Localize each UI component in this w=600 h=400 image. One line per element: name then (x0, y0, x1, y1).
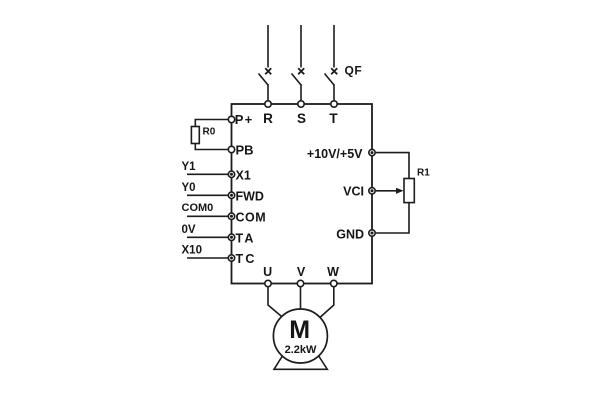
svg-text:X1: X1 (236, 168, 251, 182)
label VCI (343, 185, 364, 199)
terminal VCI (369, 188, 375, 194)
wire phase L1 input (267, 25, 269, 68)
terminal U (265, 280, 271, 286)
label U (263, 265, 272, 279)
wire phase L3 input (333, 25, 335, 68)
svg-text:X10: X10 (182, 245, 202, 257)
wire pole 2 to terminal S (300, 84, 302, 100)
breaker QF pole 3 blade (325, 74, 334, 85)
wire phase L2 input (300, 25, 302, 68)
wire V to motor (300, 287, 302, 310)
label M motor (289, 316, 310, 344)
breaker QF pole 1 contact X (265, 68, 271, 74)
svg-text:M: M (289, 316, 310, 344)
terminal PB (228, 146, 234, 152)
wire stub X10 to TC (187, 257, 228, 259)
terminal TA (228, 234, 234, 240)
label FWD (236, 189, 264, 203)
svg-text:T: T (329, 111, 338, 126)
svg-text:COM0: COM0 (182, 202, 214, 214)
svg-text:VCI: VCI (343, 185, 364, 199)
wiper arrow of R1 (396, 188, 404, 194)
label V (297, 265, 306, 279)
svg-text:TA: TA (236, 231, 256, 245)
label COM0 (182, 202, 214, 214)
motor mounting base (274, 351, 327, 369)
svg-text:P+: P+ (235, 112, 254, 127)
label 0V (182, 224, 196, 236)
label X10 (182, 245, 202, 257)
label S (297, 111, 306, 126)
terminal V (297, 280, 303, 286)
wire stub Y1 to X1 (187, 173, 228, 175)
wire stub COM0 to COM (187, 215, 228, 217)
terminal T (331, 101, 337, 107)
label R0 (203, 127, 216, 138)
label 2.2kW (285, 344, 317, 356)
label COM (236, 210, 267, 224)
svg-text:FWD: FWD (236, 189, 264, 203)
wire stub 0V to TA (187, 236, 228, 238)
label QF (345, 64, 363, 78)
terminal FWD (228, 192, 234, 198)
label P+ (235, 112, 254, 127)
svg-text:R0: R0 (203, 127, 216, 138)
breaker QF pole 2 blade (292, 74, 301, 85)
svg-text:V: V (297, 265, 306, 279)
wire VCI to wiper (376, 190, 398, 192)
label R1 (417, 168, 430, 179)
label GND (336, 228, 364, 242)
svg-text:GND: GND (336, 228, 364, 242)
label PB (236, 143, 254, 158)
svg-text:QF: QF (345, 64, 363, 78)
terminal GND (369, 230, 375, 236)
terminal COM (228, 213, 234, 219)
wire W to motor (316, 287, 334, 321)
label +10V/+5V (307, 147, 363, 161)
terminal +10V/+5V (369, 149, 375, 155)
svg-text:PB: PB (236, 143, 254, 158)
label Y0 (182, 182, 196, 194)
terminal TC (228, 255, 234, 261)
svg-text:Y0: Y0 (182, 182, 196, 194)
wire P+ to resistor R0 top (195, 120, 228, 127)
wire pole 3 to terminal T (333, 84, 335, 100)
terminal P+ (228, 116, 234, 122)
terminal X1 (228, 171, 234, 177)
svg-text:2.2kW: 2.2kW (285, 344, 317, 356)
breaker QF pole 2 contact X (298, 68, 304, 74)
svg-text:TC: TC (236, 252, 257, 266)
label TA (236, 231, 256, 245)
terminal S (298, 101, 304, 107)
wire +10V/+5V to potentiometer R1 top (376, 153, 409, 179)
resistor R0 (191, 127, 199, 144)
terminal R (265, 101, 271, 107)
wire resistor R0 bottom to PB (195, 144, 228, 150)
wire U to motor (268, 287, 287, 321)
potentiometer R1 body (404, 179, 414, 203)
terminal W (331, 280, 337, 286)
wire potentiometer R1 bottom to GND (376, 203, 409, 233)
label X1 (236, 168, 251, 182)
svg-text:S: S (297, 111, 306, 126)
breaker QF pole 1 blade (259, 74, 268, 85)
wire pole 1 to terminal R (267, 84, 269, 100)
svg-text:+10V/+5V: +10V/+5V (307, 147, 363, 161)
label Y1 (182, 161, 197, 173)
label T (329, 111, 338, 126)
svg-text:Y1: Y1 (182, 161, 197, 173)
label R (263, 111, 273, 126)
svg-text:W: W (327, 265, 339, 279)
motor M body (273, 309, 327, 363)
inverter box U1 (232, 104, 373, 284)
breaker QF pole 3 contact X (331, 68, 337, 74)
wire stub Y0 to FWD (187, 194, 228, 196)
label TC (236, 252, 257, 266)
svg-text:COM: COM (236, 210, 267, 224)
svg-text:R1: R1 (417, 168, 430, 179)
svg-text:0V: 0V (182, 224, 196, 236)
svg-text:U: U (263, 265, 272, 279)
svg-text:R: R (263, 111, 273, 126)
label W (327, 265, 339, 279)
